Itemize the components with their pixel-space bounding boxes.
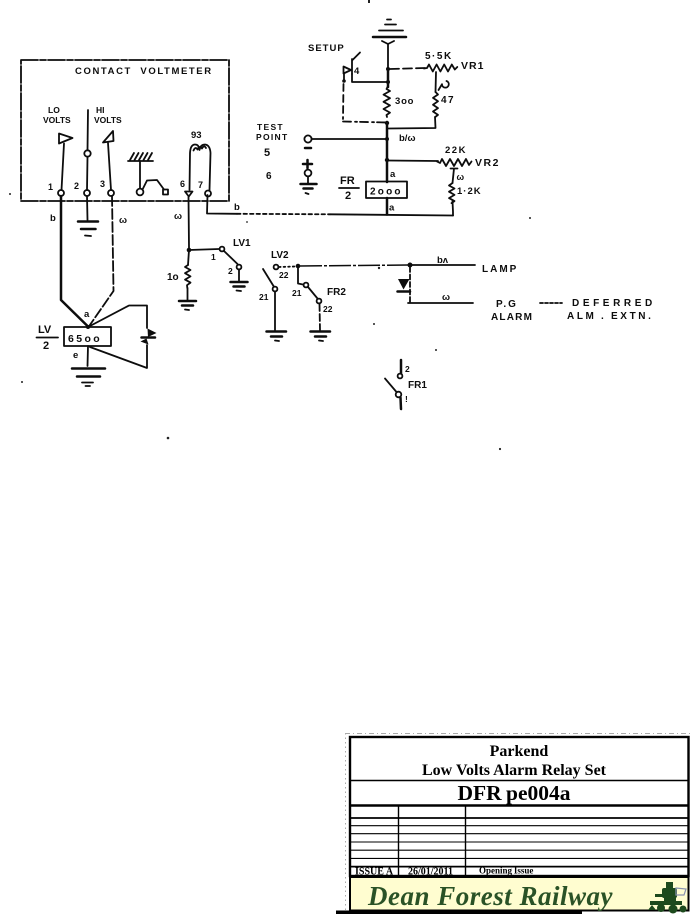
wire w to PG alarm xyxy=(408,292,533,323)
coil 93 xyxy=(190,130,211,190)
resistor VR2 22K xyxy=(437,145,500,169)
svg-text:b: b xyxy=(50,213,56,224)
meter armature xyxy=(137,161,168,195)
ground FR2 xyxy=(311,332,331,342)
thick separator xyxy=(350,804,688,807)
svg-text:21: 21 xyxy=(292,288,302,298)
terminal 7 xyxy=(205,191,211,197)
svg-text:3oo: 3oo xyxy=(395,96,414,107)
issue row text xyxy=(355,866,533,878)
svg-text:2ooo: 2ooo xyxy=(370,187,403,198)
resistor 1.2K xyxy=(449,183,482,203)
svg-text:a: a xyxy=(390,169,396,180)
banner background xyxy=(350,877,689,911)
drawing frame remnant xyxy=(345,733,691,910)
contact LV2 xyxy=(259,250,295,330)
switch SETUP contact 4 xyxy=(308,43,387,123)
svg-text:DEFERRED: DEFERRED xyxy=(572,298,656,309)
svg-text:ω: ω xyxy=(119,215,127,226)
contact voltmeter box xyxy=(21,60,229,201)
svg-text:ω: ω xyxy=(442,292,450,303)
ground LV1 xyxy=(231,282,248,291)
svg-text:1: 1 xyxy=(211,252,216,262)
wire LV2 to lamp junction xyxy=(300,265,408,266)
contact FR2 xyxy=(292,268,346,330)
wire supply to node xyxy=(387,44,389,69)
svg-text:LAMP: LAMP xyxy=(482,264,518,275)
svg-text:POINT: POINT xyxy=(256,132,288,142)
svg-text:7: 7 xyxy=(198,180,203,190)
node LV1 feed xyxy=(187,248,192,253)
test point 6 xyxy=(303,160,312,183)
svg-text:93: 93 xyxy=(191,130,202,141)
svg-text:bʌ: bʌ xyxy=(437,255,449,266)
svg-text:2: 2 xyxy=(228,266,233,276)
wire rail to b/w xyxy=(386,123,389,160)
svg-text:a: a xyxy=(84,309,90,320)
diode D2 xyxy=(398,279,411,292)
wire 1.2K to bottom xyxy=(452,201,455,216)
diode D1 xyxy=(141,329,157,345)
test point 5 xyxy=(304,135,311,148)
svg-text:2: 2 xyxy=(74,181,79,191)
VR1 wiper to 47 xyxy=(436,72,449,92)
resistor 300 xyxy=(384,87,415,117)
ground terminal 2 xyxy=(78,196,98,236)
wire dashed to VR1 xyxy=(390,68,426,69)
svg-text:DFR pe004a: DFR pe004a xyxy=(458,781,571,805)
TITLEBLOCK xyxy=(336,733,691,914)
svg-text:5: 5 xyxy=(264,147,270,159)
relay coil LV/2 6500 xyxy=(37,309,112,361)
terminal 6 xyxy=(185,192,193,197)
svg-text:a: a xyxy=(389,203,395,214)
contact LV1 xyxy=(211,238,251,281)
label DEFERRED ALM EXTN xyxy=(567,298,656,322)
pivot anchor hatching xyxy=(128,153,153,161)
svg-text:ω: ω xyxy=(174,211,182,222)
label TEST POINT 5 6 xyxy=(256,122,288,182)
node top rail xyxy=(386,67,390,71)
wire b terminal 1 down xyxy=(50,196,88,327)
svg-text:Parkend: Parkend xyxy=(490,743,549,760)
svg-text:SETUP: SETUP xyxy=(308,43,345,54)
svg-text:1: 1 xyxy=(48,182,53,192)
node VR2 tap xyxy=(385,158,389,162)
svg-text:LV2: LV2 xyxy=(271,250,289,261)
node b/w xyxy=(385,137,389,141)
wire w terminal 3 down xyxy=(89,196,128,327)
svg-text:VR1: VR1 xyxy=(461,60,484,72)
diode D1 loop xyxy=(90,306,147,369)
wire junction down xyxy=(409,267,411,303)
bottom scan bar xyxy=(336,911,582,914)
wire 47 bottom to node xyxy=(389,117,436,129)
svg-text:P.G: P.G xyxy=(496,299,518,310)
revision table rows xyxy=(350,818,688,867)
LO VOLTS contact arm xyxy=(59,134,73,191)
svg-text:21: 21 xyxy=(259,292,269,302)
wire w terminal 6 down xyxy=(174,197,189,248)
meter centre member xyxy=(84,110,90,190)
ground LV coil xyxy=(72,346,105,386)
svg-text:ω: ω xyxy=(457,172,465,182)
relay coil FR/2 2000 xyxy=(339,160,407,215)
svg-text:ALARM: ALARM xyxy=(491,312,533,323)
svg-text:22: 22 xyxy=(279,270,289,280)
node 300 bottom xyxy=(385,121,389,125)
svg-text:Low Volts Alarm Relay Set: Low Volts Alarm Relay Set xyxy=(422,762,607,779)
resistor 47 xyxy=(433,92,455,117)
resistor 10 xyxy=(167,250,191,288)
svg-text:47: 47 xyxy=(441,95,455,106)
svg-text:22: 22 xyxy=(323,304,333,314)
svg-text:2: 2 xyxy=(345,190,351,202)
ground LV2 xyxy=(267,332,287,342)
contact FR1 xyxy=(385,360,427,409)
terminal 3 xyxy=(108,190,114,196)
node setup join xyxy=(386,80,390,84)
VR2 wiper tap xyxy=(451,169,465,184)
power supply B1 xyxy=(373,20,406,45)
resistor VR1 5.5K xyxy=(424,51,484,72)
wire node to LV1 xyxy=(189,249,219,250)
HI VOLTS contact arm xyxy=(103,131,114,190)
svg-text:!: ! xyxy=(405,394,408,404)
scan noise dots xyxy=(9,0,531,450)
wire bottom rail b xyxy=(207,195,453,216)
svg-text:6: 6 xyxy=(266,171,272,182)
svg-text:2: 2 xyxy=(405,364,410,374)
svg-text:b: b xyxy=(234,202,240,213)
svg-text:6: 6 xyxy=(180,179,185,189)
svg-text:3: 3 xyxy=(100,179,105,189)
train logo xyxy=(648,882,687,914)
ground resistor 10 xyxy=(179,288,196,310)
banner border xyxy=(350,877,689,911)
svg-text:LO: LO xyxy=(48,105,60,115)
svg-text:2: 2 xyxy=(43,340,49,352)
node a apex xyxy=(86,325,90,329)
svg-text:ALM . EXTN.: ALM . EXTN. xyxy=(567,311,654,322)
svg-text:1·2K: 1·2K xyxy=(457,186,482,197)
revision table columns xyxy=(399,806,466,876)
wire to VR2 xyxy=(387,160,438,163)
svg-text:CONTACT VOLTMETER: CONTACT VOLTMETER xyxy=(75,66,213,77)
node lamp junction xyxy=(408,263,413,268)
svg-text:65oo: 65oo xyxy=(68,333,102,345)
wire bn to LAMP xyxy=(412,255,518,275)
wire test point 5 xyxy=(312,138,388,140)
terminal 2 xyxy=(84,190,90,196)
separator line xyxy=(350,780,688,782)
svg-text:HI: HI xyxy=(96,105,105,115)
svg-text:FR1: FR1 xyxy=(408,380,427,391)
svg-text:LV: LV xyxy=(38,324,52,336)
svg-text:VOLTS: VOLTS xyxy=(43,115,71,125)
svg-text:Opening Issue: Opening Issue xyxy=(479,866,533,876)
svg-text:22K: 22K xyxy=(445,145,467,156)
svg-text:5·5K: 5·5K xyxy=(425,51,453,62)
ground test point 6 xyxy=(301,184,317,194)
svg-text:FR2: FR2 xyxy=(327,287,346,298)
svg-text:LV1: LV1 xyxy=(233,238,251,249)
svg-text:VOLTS: VOLTS xyxy=(94,115,122,125)
svg-text:4: 4 xyxy=(354,66,360,77)
svg-text:TEST: TEST xyxy=(257,122,284,132)
svg-text:1o: 1o xyxy=(167,272,179,283)
svg-text:Dean Forest Railway: Dean Forest Railway xyxy=(367,881,614,911)
node LV2 junction xyxy=(296,264,301,269)
svg-text:e: e xyxy=(73,350,78,361)
svg-text:VR2: VR2 xyxy=(475,157,500,169)
wire rail node-to-node xyxy=(387,69,390,87)
title block outer border xyxy=(350,737,689,876)
svg-text:b/ω: b/ω xyxy=(399,133,415,144)
svg-text:ISSUE A: ISSUE A xyxy=(355,867,394,878)
svg-text:FR: FR xyxy=(340,175,355,187)
terminal 1 xyxy=(58,190,64,196)
svg-text:26/01/2011: 26/01/2011 xyxy=(408,867,453,878)
wire dashed deferred xyxy=(540,302,562,304)
